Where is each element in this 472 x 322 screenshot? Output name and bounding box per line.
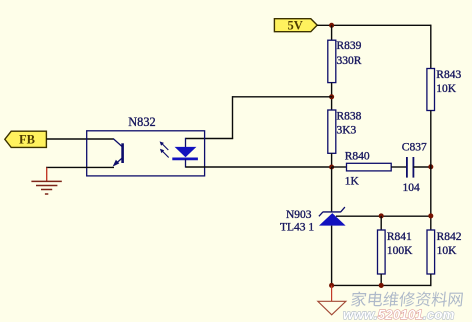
svg-text:R838: R838 (337, 111, 362, 123)
light arrows of N832 (160, 141, 169, 157)
capacitor C837 (402, 142, 427, 195)
svg-text:330R: 330R (337, 55, 362, 67)
wire R839 top stub (331, 25, 333, 40)
wire node K to R840 (332, 166, 347, 168)
svg-text:R839: R839 (337, 40, 362, 52)
LED of N832 (172, 138, 198, 168)
junction dot bottom at TL431 (329, 283, 334, 288)
wire R839 to R838 (331, 83, 333, 110)
wire FB to optocoupler (46, 138, 113, 140)
svg-text:N903: N903 (286, 209, 312, 221)
wire opto emitter to ground (46, 166, 114, 168)
junction dot node K (329, 164, 334, 169)
svg-text:C837: C837 (402, 142, 427, 154)
svg-text:www.520101.com: www.520101.com (343, 307, 455, 322)
optocoupler N832 box (87, 131, 205, 176)
resistor R843 (427, 69, 462, 111)
wire TL431 reference (336, 215, 432, 217)
wire C837 to right rail (413, 166, 431, 168)
svg-text:R843: R843 (436, 69, 461, 81)
wire R842 bottom stub (430, 274, 432, 286)
svg-text:10K: 10K (437, 245, 458, 257)
wire node K to TL431 cathode (331, 167, 333, 212)
power port 5V (274, 19, 317, 33)
watermark site name (351, 292, 463, 307)
svg-text:10K: 10K (436, 83, 457, 95)
resistor R842 (427, 230, 462, 274)
junction dot feedback branch (329, 94, 334, 99)
svg-text:TL43 1: TL43 1 (280, 222, 314, 234)
junction dot ref at R841 (379, 213, 384, 218)
junction dot bottom at R841 (379, 283, 384, 288)
resistor R838 (328, 110, 362, 153)
wire 5V top rail (317, 24, 431, 26)
junction dot right rail at C837 (428, 164, 433, 169)
port FB (5, 131, 47, 147)
resistor R839 (328, 40, 362, 82)
svg-text:3K3: 3K3 (337, 125, 357, 137)
wire right rail upper (430, 25, 432, 69)
svg-text:R842: R842 (437, 231, 462, 243)
shunt regulator N903 TL431 (280, 207, 346, 234)
junction dot on 5V rail (329, 23, 334, 28)
resistor R841 (378, 230, 414, 274)
svg-text:100K: 100K (387, 245, 413, 257)
junction dot ref at right rail (428, 213, 433, 218)
svg-text:104: 104 (403, 182, 421, 194)
wire R841 top stub (380, 216, 382, 230)
wire R841 bottom stub (380, 274, 382, 285)
svg-text:R841: R841 (387, 231, 412, 243)
wire R838 to node K (331, 153, 333, 167)
wire feedback branch vertical (232, 96, 234, 138)
wire feedback branch horizontal (233, 96, 333, 98)
wire R840 to C837 (391, 166, 407, 168)
wire opto cathode to node K (186, 166, 333, 168)
ground GND1 (31, 167, 61, 194)
wire right rail middle (430, 111, 432, 231)
svg-text:FB: FB (19, 133, 35, 147)
svg-text:5V: 5V (288, 19, 303, 33)
wire opto anode pin (186, 138, 234, 140)
svg-text:N832: N832 (128, 115, 155, 129)
phototransistor of N832 (113, 139, 123, 167)
wire TL431 anode down (331, 226, 333, 287)
wire bottom rail (332, 284, 432, 286)
resistor R840 (345, 151, 392, 188)
svg-text:1K: 1K (345, 175, 360, 187)
power ground GND2 (318, 285, 346, 314)
svg-text:R840: R840 (345, 151, 370, 163)
